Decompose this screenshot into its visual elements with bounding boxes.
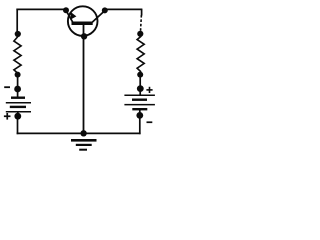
battery BT1 negative terminal node bbox=[14, 86, 21, 93]
resistor R1 bbox=[14, 34, 21, 75]
wire left vertical upper bbox=[16, 9, 18, 34]
transistor Q1 circle bbox=[68, 6, 98, 36]
battery BT2 positive terminal node bbox=[137, 85, 144, 92]
node at resistor R2 bottom bbox=[137, 72, 143, 78]
node bottom rail junction bbox=[80, 130, 86, 136]
wire bottom rail bbox=[17, 132, 141, 134]
battery BT1 positive terminal node bbox=[14, 113, 21, 120]
battery BT2 negative terminal node bbox=[136, 112, 143, 119]
transistor Q1 collector lead bbox=[92, 11, 105, 23]
wire resistor R1 to battery BT1 bbox=[17, 75, 19, 98]
wire top-left horizontal bbox=[16, 8, 66, 10]
wire right vertical upper bbox=[141, 9, 143, 16]
node at resistor R1 top bbox=[15, 31, 21, 37]
label minus BT2 bbox=[147, 121, 153, 123]
wire left vertical lower to bottom rail bbox=[17, 116, 19, 134]
node at resistor R1 bottom bbox=[15, 72, 21, 78]
node at resistor R2 top bbox=[137, 31, 143, 37]
ground bbox=[71, 139, 97, 151]
battery BT1 bbox=[6, 97, 31, 113]
wire battery BT2 bottom plate to bottom rail bbox=[139, 109, 141, 134]
battery BT2 bbox=[124, 95, 154, 111]
wire top-right horizontal bbox=[105, 8, 142, 10]
transistor Q1 emitter lead bbox=[66, 10, 73, 22]
label plus BT1 bbox=[4, 113, 11, 120]
wire battery BT1 bottom plate to terminal bbox=[17, 112, 19, 117]
node collector terminal bbox=[102, 7, 108, 13]
node emitter terminal bbox=[63, 7, 69, 13]
node base lead at circle bbox=[81, 33, 87, 39]
resistor R2 bbox=[137, 34, 144, 75]
wire resistor R2 to battery BT2 bbox=[139, 75, 141, 96]
label minus BT1 bbox=[4, 86, 10, 88]
transistor Q1 base lead bbox=[83, 24, 85, 133]
transistor Q1 base bar bbox=[72, 22, 93, 26]
transistor Q1 emitter arrow bbox=[70, 12, 76, 20]
label plus BT2 bbox=[146, 87, 152, 93]
